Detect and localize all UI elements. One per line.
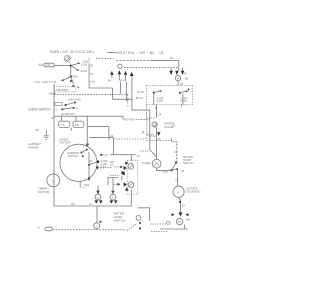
valve arrow (157, 132, 161, 136)
lid switch contact group (61, 67, 72, 83)
bottom bus wire (54, 205, 132, 207)
fuse blade diagonal (151, 151, 157, 157)
neutral wire solid part (150, 59, 179, 61)
left vertical wire (53, 84, 55, 206)
timer motor circle (47, 174, 60, 187)
svg-text:SWITCH: SWITCH (68, 154, 79, 158)
svg-text:5 A: 5 A (60, 123, 64, 127)
start contact arrow (96, 167, 99, 170)
water level box corner (138, 208, 150, 221)
svg-text:MOTOR: MOTOR (38, 190, 50, 194)
riser x132 (131, 76, 133, 110)
terminal 1 arrow (111, 191, 114, 194)
junction dot lid row (53, 93, 55, 95)
stub down at x123 (122, 116, 124, 119)
box switch right blade (180, 91, 186, 93)
start switch blade (89, 162, 97, 165)
left connector arrows (110, 71, 113, 75)
svg-text:ST: ST (89, 159, 93, 163)
switch blade to contact 2-60 (71, 66, 78, 70)
dashed wire left of valve (146, 117, 155, 119)
water level arrow (100, 221, 103, 223)
plug arrow row2 b (124, 182, 127, 186)
svg-text:24: 24 (158, 113, 161, 117)
svg-text:BK: BK (71, 203, 75, 206)
svg-text:RED: RED (163, 169, 169, 173)
wire below fuse (157, 168, 171, 171)
switch box dashed (146, 85, 192, 104)
svg-text:CHECK SWITCH: CHECK SWITCH (28, 107, 51, 111)
neutral connector circle left (118, 64, 122, 68)
mid column risers (121, 82, 127, 102)
motor feed arrow (86, 144, 90, 147)
svg-text:24: 24 (182, 204, 185, 208)
svg-text:CLOSED: CLOSED (68, 75, 78, 78)
main bus wire upper (54, 115, 123, 117)
zigzag wire (121, 176, 123, 181)
plug arrow row2 a (118, 183, 121, 186)
box switch left stem (153, 94, 155, 105)
dashed stub timer (88, 58, 90, 63)
water level riser wire (96, 206, 98, 223)
valve wire down (156, 127, 158, 159)
left edge wire (145, 105, 147, 118)
svg-text:OR-18: OR-18 (119, 79, 127, 83)
motor internal riser (88, 152, 90, 181)
motor connector dashed box (127, 160, 138, 194)
svg-text:NEUTRAL - WH - BK - 18: NEUTRAL - WH - BK - 18 (118, 51, 164, 55)
svg-text:1-50: 1-50 (81, 62, 87, 66)
riser x113 (112, 138, 114, 155)
bottom dashed wire (53, 229, 126, 231)
right connector arrows (169, 71, 173, 75)
svg-text:SWITCH: SWITCH (113, 218, 125, 222)
motor connector riser (130, 155, 132, 161)
svg-text:4A 18: 4A 18 (137, 90, 144, 94)
wire y155 to connector (101, 154, 135, 156)
lower pivot dot (88, 177, 90, 179)
svg-text:MOTOR: MOTOR (124, 118, 134, 122)
water level dashes right b (151, 231, 168, 233)
parking switch contacts (81, 149, 89, 158)
svg-text:3-ON: 3-ON (180, 99, 186, 103)
pressure switch dot upper (175, 162, 177, 164)
box switch right stem (182, 94, 184, 105)
box right stem stub (181, 105, 183, 107)
pressure switch arrow (176, 168, 178, 170)
water level terminal circle (94, 223, 100, 229)
box switch left arrow (160, 90, 162, 92)
svg-text:AB: AB (49, 91, 53, 95)
svg-text:SWITCH: SWITCH (183, 161, 194, 165)
dashed wire mid (110, 175, 120, 177)
neutral leader wire (107, 51, 117, 53)
svg-text:18: 18 (36, 128, 40, 132)
lid switch plug B (73, 121, 84, 127)
fuse circle (152, 159, 161, 168)
ground wire (45, 130, 47, 136)
svg-text:B: B (155, 106, 157, 110)
drive motor circle (60, 144, 97, 181)
circled terminal 3 (95, 194, 101, 200)
dashed riser mid (127, 95, 129, 107)
svg-text:4-80 RPM: 4-80 RPM (56, 88, 69, 92)
right connector riser (178, 60, 180, 70)
pressure switch blade upper (172, 163, 176, 170)
ground symbol (44, 136, 50, 140)
stem circle to box (177, 81, 179, 86)
motor bottom stub (79, 182, 81, 188)
check switch contact row 2 (54, 107, 78, 112)
bottom connector arrows (172, 213, 175, 216)
svg-text:1: 1 (112, 196, 114, 200)
dashed wire lid row (54, 94, 128, 96)
start switch contact square (97, 161, 99, 163)
timer feed riser (112, 88, 114, 99)
box switch left pivot (153, 92, 155, 94)
svg-text:LID SWITCH: LID SWITCH (34, 80, 56, 84)
riser x109 (108, 127, 110, 140)
svg-text:BK: BK (186, 217, 190, 221)
svg-text:AA: AA (39, 63, 44, 67)
stem to plug A (61, 116, 63, 121)
junction dot (70, 65, 72, 67)
svg-text:24: 24 (105, 153, 109, 157)
bottom oval small (166, 222, 170, 225)
bus arrows pair 1 (95, 200, 103, 203)
mid zigzag triangles (122, 171, 126, 175)
valve solenoid coil (152, 122, 157, 127)
wire y110 (132, 109, 150, 111)
dashed start wire (100, 167, 112, 169)
svg-text:50: 50 (90, 65, 93, 68)
check switch contact row 1 (55, 101, 77, 106)
svg-text:T: T (52, 180, 54, 184)
svg-text:2-60: 2-60 (81, 69, 87, 73)
right connector stems (171, 68, 182, 71)
lid switch plug A (59, 121, 70, 127)
wire upper mid horizontal (90, 137, 114, 139)
pressure switch blade (172, 169, 177, 170)
svg-text:1 M: 1 M (46, 63, 50, 67)
dashed riser valve left (146, 118, 148, 139)
upper dashed neutral wire (124, 67, 179, 69)
svg-text:18: 18 (181, 169, 184, 173)
water level dashes right a (150, 223, 166, 225)
box switch left blade (154, 91, 160, 93)
svg-text:SOLENOID: SOLENOID (186, 190, 200, 194)
wire from mid to fuse (140, 150, 151, 152)
contact arrow 2-60 (77, 69, 79, 71)
contact arrow 1-50 (78, 62, 80, 64)
dashed wire right of label (136, 119, 150, 121)
timer motor coil (hatched circle) (64, 55, 72, 65)
svg-text:BK: BK (185, 77, 189, 81)
stub tick dashes (83, 186, 85, 188)
timer feed wire horizontal (89, 87, 112, 89)
svg-text:W: W (186, 228, 189, 231)
svg-text:6 B: 6 B (75, 123, 79, 127)
stem to plug B (75, 116, 77, 121)
left connector stems (112, 74, 126, 80)
bottom right wire (160, 225, 185, 229)
svg-text:BK 18: BK 18 (136, 97, 143, 100)
wire to agitate solenoid (177, 170, 179, 186)
box switch right pivot (179, 92, 181, 94)
svg-text:M: M (177, 77, 179, 81)
water level contact circle (136, 216, 141, 221)
svg-text:18: 18 (184, 73, 187, 76)
svg-text:5-40 6-60: 5-40 6-60 (68, 97, 81, 101)
timer contact box 4-off (54, 87, 76, 92)
plug arrow row1 b (124, 166, 127, 170)
svg-text:3-60: 3-60 (90, 81, 95, 84)
svg-text:TIMER ( INC. 30 CYCLE SW ): TIMER ( INC. 30 CYCLE SW ) (49, 50, 94, 54)
water level dot a (139, 222, 141, 224)
svg-text:MOTOR: MOTOR (59, 141, 71, 145)
plug contact circle 2 (128, 182, 134, 188)
valve coil squiggle (147, 134, 155, 137)
wire x150 riser (149, 110, 151, 150)
dashed wire to start switch (113, 139, 172, 141)
lid switch tick 2 (78, 86, 80, 88)
svg-text:A: A (177, 190, 179, 194)
wire into row2 (113, 183, 117, 185)
stem below plugs (70, 128, 72, 132)
connector oval bottom (45, 227, 52, 231)
svg-text:5M3: 5M3 (84, 183, 90, 187)
wire into row1 (115, 166, 121, 168)
timer feed wire lower (113, 98, 132, 100)
plug arrow bottom (125, 187, 129, 190)
plug contact circle 1 (128, 164, 134, 170)
wire motor top riser (86, 116, 88, 147)
svg-text:4A SWITCH: 4A SWITCH (61, 113, 75, 116)
pressure switch pivot (171, 169, 173, 171)
wire below agitate (179, 197, 181, 212)
terminal 1 riser (112, 178, 114, 195)
lower wire corner (108, 178, 118, 186)
svg-text:FUSE: FUSE (142, 161, 150, 165)
terminal 3 riser (97, 186, 99, 195)
wire box to valve (156, 105, 158, 118)
right connector circle (175, 76, 180, 81)
svg-text:V: V (96, 224, 98, 228)
svg-text:18: 18 (170, 56, 174, 60)
bottom connector circle (176, 218, 182, 224)
box switch right arrow (186, 90, 188, 92)
neutral tap arrow (130, 72, 134, 76)
plug arrow row1 top (125, 162, 128, 165)
switch blade to contact 1-50 (71, 63, 79, 65)
parking switch node dot (100, 154, 102, 156)
svg-text:60: 60 (90, 73, 93, 76)
timer feed wire vertical (88, 64, 90, 89)
lid switch arrow 2 (73, 85, 76, 87)
svg-text:3: 3 (97, 195, 99, 199)
svg-text:BK: BK (108, 79, 112, 83)
valve tick cross (142, 131, 144, 133)
wire mid horizontal (87, 126, 109, 128)
svg-text:FRAME: FRAME (28, 145, 39, 149)
svg-text:18: 18 (137, 154, 140, 158)
water level dot b (139, 227, 141, 229)
svg-text:2Y: 2Y (110, 163, 113, 167)
svg-text:N: N (37, 225, 39, 229)
junction dot below agitate (179, 201, 181, 203)
connector bottom riser (130, 189, 132, 206)
circled terminal 1 (110, 194, 116, 200)
neutral wire dashed part (116, 59, 150, 61)
start switch corner (172, 139, 177, 163)
svg-text:2-ON: 2-ON (156, 99, 162, 103)
lid switch blade 2 (71, 77, 74, 85)
svg-text:M: M (178, 220, 181, 224)
connector AA box (44, 63, 54, 67)
agitate solenoid circle (173, 186, 184, 197)
svg-text:VALVE: VALVE (164, 125, 173, 129)
plug arrow row1 a (120, 166, 123, 168)
wire from AA to junction (54, 65, 70, 67)
bus arrows pair 2 (110, 200, 118, 203)
terminal 3 arrow (96, 191, 99, 194)
start switch pivot dot (88, 164, 90, 166)
box switch right dot (188, 89, 190, 91)
water level blade dashed (127, 223, 137, 230)
dashed wire upper (96, 57, 114, 59)
